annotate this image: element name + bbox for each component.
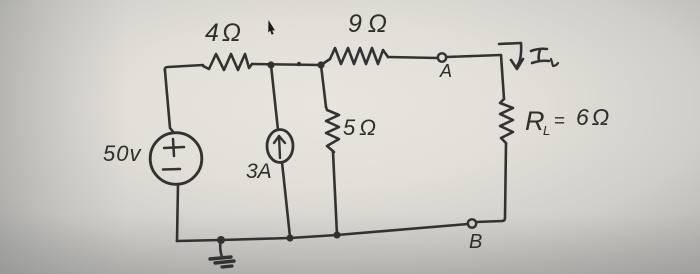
junction dot bottom 5-ohm branch (333, 231, 340, 238)
label IL drawn (531, 49, 549, 63)
mouse cursor (268, 20, 275, 35)
bottom wire (177, 224, 468, 241)
ground bar 1 (210, 257, 231, 259)
svg-text:6Ω: 6Ω (576, 104, 612, 130)
svg-text:50v: 50v (103, 141, 142, 166)
node B terminal circle (468, 219, 476, 227)
current source 3A circle (267, 130, 293, 163)
node junction small dot (297, 62, 301, 66)
resistor 9ohm zigzag (330, 48, 388, 64)
wire source bottom to bottom wire (177, 184, 178, 241)
svg-text:9Ω: 9Ω (348, 10, 393, 38)
node junction dot 1 (267, 61, 274, 68)
wire 9-ohm to node A (388, 57, 438, 58)
left vertical wire top (165, 71, 174, 133)
3A arrow up (274, 136, 285, 158)
minus sign (163, 168, 180, 171)
wire top-right corner down (501, 55, 504, 99)
node A terminal circle (438, 53, 446, 61)
svg-text:A: A (439, 61, 452, 81)
wire node A to top-right corner (446, 55, 501, 57)
current arrow IL (499, 43, 521, 66)
wire from 4-ohm to 5-ohm junction (252, 64, 321, 65)
voltage source 50V circle (150, 133, 202, 185)
wire 5-ohm to bottom (333, 152, 337, 235)
wire junction to 9-ohm resistor (321, 59, 330, 65)
junction dot ground (217, 236, 225, 244)
wire 3A source to bottom (282, 162, 290, 237)
svg-text:R: R (525, 106, 545, 136)
wire top-left corner to 4-ohm resistor (165, 65, 203, 71)
resistor R 4ohm zigzag (203, 54, 252, 70)
node junction dot 2 (317, 61, 324, 68)
plus sign (164, 139, 184, 156)
resistor 5ohm zigzag (326, 107, 339, 152)
svg-text:B: B (469, 231, 482, 253)
wire junction1 down to 3A source (271, 65, 278, 130)
wire junction2 down to 5-ohm (321, 65, 326, 107)
ground stem (220, 240, 222, 257)
svg-text:3A: 3A (246, 160, 272, 183)
ground bar 3 (222, 266, 232, 267)
svg-text:L: L (543, 123, 550, 138)
junction dot bottom 3A branch (286, 234, 293, 241)
wire RL to bottom-right corner (476, 143, 506, 222)
resistor RL zigzag (500, 99, 513, 143)
svg-text:4Ω: 4Ω (205, 19, 244, 47)
ground bar 2 (215, 261, 234, 263)
svg-text:5Ω: 5Ω (343, 115, 380, 140)
svg-text:=: = (554, 111, 565, 132)
